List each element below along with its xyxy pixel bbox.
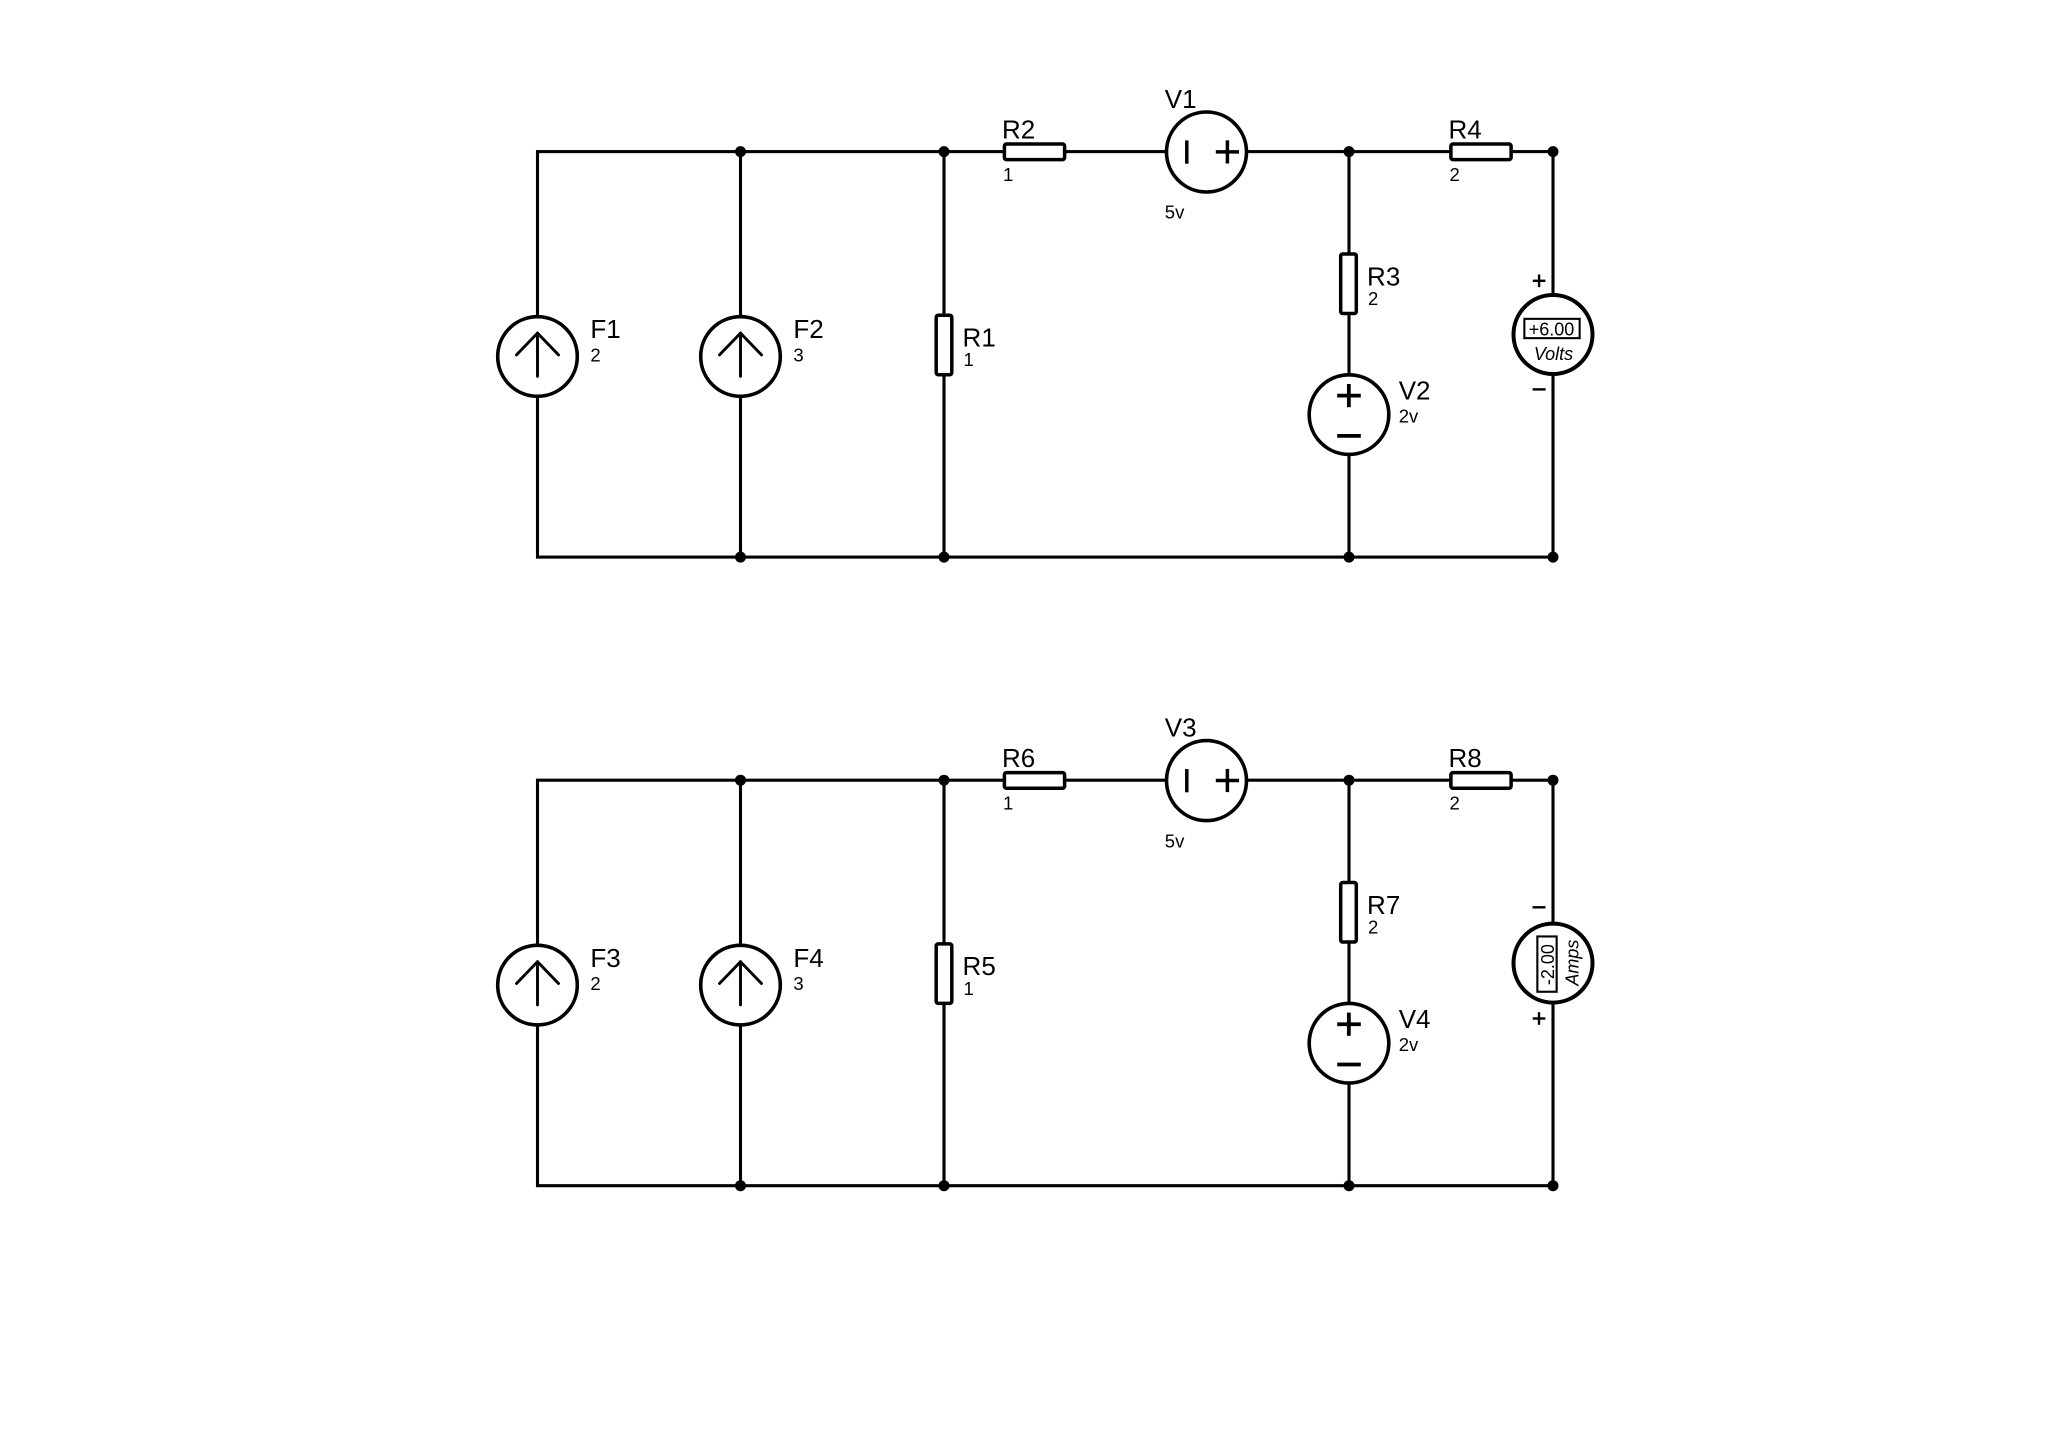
- svg-text:1: 1: [1003, 164, 1013, 185]
- svg-text:2: 2: [1450, 793, 1460, 814]
- svg-text:1: 1: [1003, 793, 1013, 814]
- svg-text:R1: R1: [963, 323, 996, 353]
- svg-text:1: 1: [964, 349, 974, 370]
- svg-text:R8: R8: [1449, 743, 1482, 773]
- svg-text:V4: V4: [1399, 1004, 1431, 1034]
- svg-text:5v: 5v: [1165, 830, 1185, 851]
- svg-text:V1: V1: [1165, 84, 1197, 114]
- svg-text:Amps: Amps: [1563, 940, 1583, 987]
- svg-text:Volts: Volts: [1534, 344, 1573, 364]
- svg-text:3: 3: [793, 973, 803, 994]
- svg-text:5v: 5v: [1165, 202, 1185, 223]
- svg-text:+6.00: +6.00: [1529, 319, 1575, 339]
- svg-text:F3: F3: [590, 943, 620, 973]
- svg-text:F2: F2: [793, 314, 823, 344]
- svg-text:V3: V3: [1165, 713, 1197, 743]
- svg-text:V2: V2: [1399, 376, 1431, 406]
- svg-text:1: 1: [964, 978, 974, 999]
- svg-text:2: 2: [1368, 917, 1378, 938]
- svg-text:R2: R2: [1002, 114, 1035, 144]
- svg-text:R5: R5: [963, 951, 996, 981]
- svg-text:R7: R7: [1367, 890, 1400, 920]
- svg-text:2v: 2v: [1399, 406, 1419, 427]
- svg-text:R6: R6: [1002, 743, 1035, 773]
- svg-text:F1: F1: [590, 314, 620, 344]
- svg-text:R4: R4: [1449, 114, 1482, 144]
- svg-text:2: 2: [590, 344, 600, 365]
- svg-text:F4: F4: [793, 943, 823, 973]
- svg-text:2: 2: [1368, 288, 1378, 309]
- svg-text:2: 2: [1450, 164, 1460, 185]
- svg-text:3: 3: [793, 344, 803, 365]
- svg-text:R3: R3: [1367, 261, 1400, 291]
- svg-text:2v: 2v: [1399, 1034, 1419, 1055]
- svg-text:-2.00: -2.00: [1538, 944, 1558, 985]
- svg-text:2: 2: [590, 973, 600, 994]
